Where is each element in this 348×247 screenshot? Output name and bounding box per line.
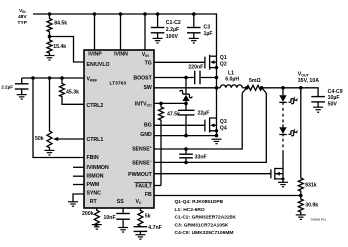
svg-text:Q1: Q1: [220, 55, 227, 61]
wire SW: [154, 86, 218, 90]
wire FAULT pullup vertical: [160, 122, 162, 186]
ground under 15.4k: [45, 56, 55, 61]
svg-text:220nF: 220nF: [188, 65, 203, 71]
svg-text:RT: RT: [90, 199, 98, 205]
svg-text:SENSE+: SENSE+: [132, 146, 152, 153]
wire dashed LED string 1: [282, 108, 284, 123]
svg-text:SYNC: SYNC: [87, 191, 102, 197]
svg-text:6.0µH: 6.0µH: [225, 76, 239, 82]
svg-text:1µF: 1µF: [204, 31, 213, 37]
svg-text:50k: 50k: [35, 136, 44, 142]
ground FB divider: [296, 215, 306, 220]
svg-text:TYP: TYP: [18, 20, 28, 26]
svg-text:48V: 48V: [18, 14, 27, 20]
wire BOOST: [154, 76, 218, 80]
svg-text:C3: GRM31CR72A105K: C3: GRM31CR72A105K: [175, 222, 229, 228]
wire SYNC: [73, 194, 84, 202]
wire VREF rail: [22, 76, 84, 80]
resistor R 931k FB top: [298, 88, 316, 196]
svg-text:CTRL2: CTRL2: [87, 103, 104, 109]
svg-text:C1-C2: GRM32ER72A225K: C1-C2: GRM32ER72A225K: [175, 215, 237, 221]
svg-text:45.3k: 45.3k: [66, 89, 79, 95]
capacitor 220nF bootstrap: [188, 65, 203, 85]
svg-text:10nF: 10nF: [104, 215, 116, 221]
wire PWMOUT: [154, 173, 271, 175]
wire VIN top rail: [33, 12, 217, 56]
wire SENSE-: [154, 93, 266, 164]
wire VIN pin: [144, 14, 146, 50]
svg-text:Q4: Q4: [220, 125, 227, 131]
wire IVINN pin: [120, 14, 122, 50]
ground VC: [135, 235, 145, 239]
wire GND: [154, 134, 218, 138]
svg-text:30.9k: 30.9k: [305, 203, 318, 209]
svg-text:5mΩ: 5mΩ: [249, 78, 261, 84]
svg-text:IVINP: IVINP: [88, 52, 102, 58]
svg-text:LT3763: LT3763: [110, 80, 127, 86]
wire EN/UVLO: [50, 37, 85, 63]
svg-text:5k: 5k: [145, 214, 151, 220]
svg-text:EN/UVLO: EN/UVLO: [87, 62, 110, 68]
svg-text:DN508 F01: DN508 F01: [311, 218, 327, 222]
diode D1 Schottky INTVCC to BOOST: [180, 78, 192, 104]
wire SENSE+: [154, 93, 242, 151]
resistor R 45.3k: [60, 78, 85, 104]
svg-text:IVINN: IVINN: [114, 52, 128, 58]
ground C1-C2: [153, 38, 163, 43]
wire IVINP pin: [94, 14, 96, 50]
inductor L1: [217, 70, 247, 87]
svg-text:931k: 931k: [305, 182, 317, 188]
ground SYNC: [68, 202, 78, 207]
resistor R 200k on RT: [82, 208, 99, 226]
svg-text:SS: SS: [117, 199, 124, 205]
svg-text:84.5k: 84.5k: [54, 21, 67, 27]
wire CTRL1 wiper: [53, 137, 84, 141]
svg-text:C1-C2: C1-C2: [166, 20, 181, 26]
svg-text:2.2µF: 2.2µF: [1, 85, 13, 90]
svg-text:4.7nF: 4.7nF: [148, 225, 162, 231]
svg-text:Q2: Q2: [220, 61, 227, 67]
ground under 2.2uF: [17, 95, 27, 100]
transistor Q3 Q4 bottom MOSFET: [205, 88, 227, 136]
wire FAULT: [154, 185, 161, 187]
wire PWM stub: [73, 184, 84, 186]
capacitor 4.7nF on VC: [134, 225, 162, 235]
transistor dimming MOSFET: [271, 168, 285, 183]
wire FB: [154, 194, 303, 198]
wire dashed LED string 2: [282, 139, 284, 154]
resistor R 5k on VC: [138, 208, 151, 227]
LED D2: [279, 124, 298, 136]
capacitor C1-C2: [151, 14, 181, 40]
svg-text:FB: FB: [145, 192, 152, 198]
wire TG: [154, 61, 205, 63]
svg-text:FBIN: FBIN: [87, 155, 99, 161]
svg-text:C4-C9: C4-C9: [328, 89, 343, 95]
capacitor C3: [187, 14, 213, 38]
svg-text:200k: 200k: [82, 211, 94, 217]
svg-text:BG: BG: [144, 123, 152, 129]
LED D1: [279, 88, 298, 105]
wire FBIN: [33, 78, 84, 158]
svg-text:C4-C9: UMK325C7106MM: C4-C9: UMK325C7106MM: [175, 230, 234, 236]
svg-text:TG: TG: [145, 61, 152, 67]
svg-text:ISMON: ISMON: [87, 174, 104, 180]
svg-text:CTRL1: CTRL1: [87, 137, 104, 143]
svg-text:33nF: 33nF: [195, 154, 207, 160]
svg-text:GND: GND: [140, 132, 152, 138]
node VIN input label: [18, 8, 28, 26]
capacitor C4-C9 output: [311, 89, 342, 108]
ground dimming MOSFET: [278, 182, 288, 187]
svg-text:100V: 100V: [166, 34, 179, 40]
wire output rail VOUT: [262, 86, 318, 97]
resistor R 30.9k FB bottom: [298, 196, 318, 215]
svg-text:2.2µF: 2.2µF: [166, 27, 179, 33]
svg-text:BOOST: BOOST: [133, 75, 152, 81]
ground under 50k: [45, 150, 55, 155]
ground C4-C9: [313, 107, 323, 112]
svg-text:22µF: 22µF: [198, 111, 210, 117]
svg-text:50V: 50V: [328, 102, 338, 108]
ground Q3 Q4 source: [212, 139, 222, 144]
svg-text:PWM: PWM: [87, 182, 100, 188]
node VOUT label: [298, 71, 319, 84]
resistor R 5m ohm sense: [242, 78, 266, 93]
svg-text:IVINMON: IVINMON: [87, 165, 109, 171]
svg-text:FAULT: FAULT: [135, 184, 152, 190]
capacitor 22uF INTVCC: [178, 103, 209, 135]
ground C3: [189, 38, 199, 43]
wire BG: [154, 124, 205, 126]
svg-text:PWMOUT: PWMOUT: [128, 172, 152, 178]
svg-text:SENSE−: SENSE−: [132, 160, 152, 167]
wire LED to dimming FET drain: [275, 153, 283, 168]
wire Q1 source to SW node: [216, 68, 218, 88]
IC U1 LT3763: [84, 50, 154, 208]
wire INTVCC: [154, 102, 188, 106]
svg-text:10µF: 10µF: [328, 95, 340, 101]
wire IVINMON stub: [73, 166, 84, 168]
resistor R 84.5k: [47, 14, 67, 37]
svg-text:35V, 10A: 35V, 10A: [298, 78, 319, 84]
potentiometer 50k: [35, 78, 52, 150]
resistor R 15.4k: [47, 37, 66, 56]
wire ISMON stub: [73, 175, 84, 177]
svg-text:SW: SW: [143, 85, 151, 91]
capacitor 10nF on SS: [104, 208, 130, 228]
svg-text:Q1-Q4: RJK0851DPB: Q1-Q4: RJK0851DPB: [175, 199, 224, 205]
capacitor 33nF sense filter: [179, 149, 207, 163]
svg-text:L1: HC2-6RO: L1: HC2-6RO: [175, 207, 205, 213]
resistor R 47.5k INTVCC pullup for FAULT: [159, 103, 181, 121]
ground RT: [92, 225, 102, 230]
ground SS: [118, 228, 128, 233]
svg-text:Q3: Q3: [220, 119, 227, 125]
svg-text:C3: C3: [204, 24, 211, 30]
capacitor 2.2uF VREF bypass: [1, 78, 28, 95]
transistor Q1 Q2 top MOSFET: [205, 55, 227, 70]
note component list: [175, 199, 237, 236]
node junction divider: [48, 35, 52, 39]
svg-text:15.4k: 15.4k: [53, 44, 66, 50]
